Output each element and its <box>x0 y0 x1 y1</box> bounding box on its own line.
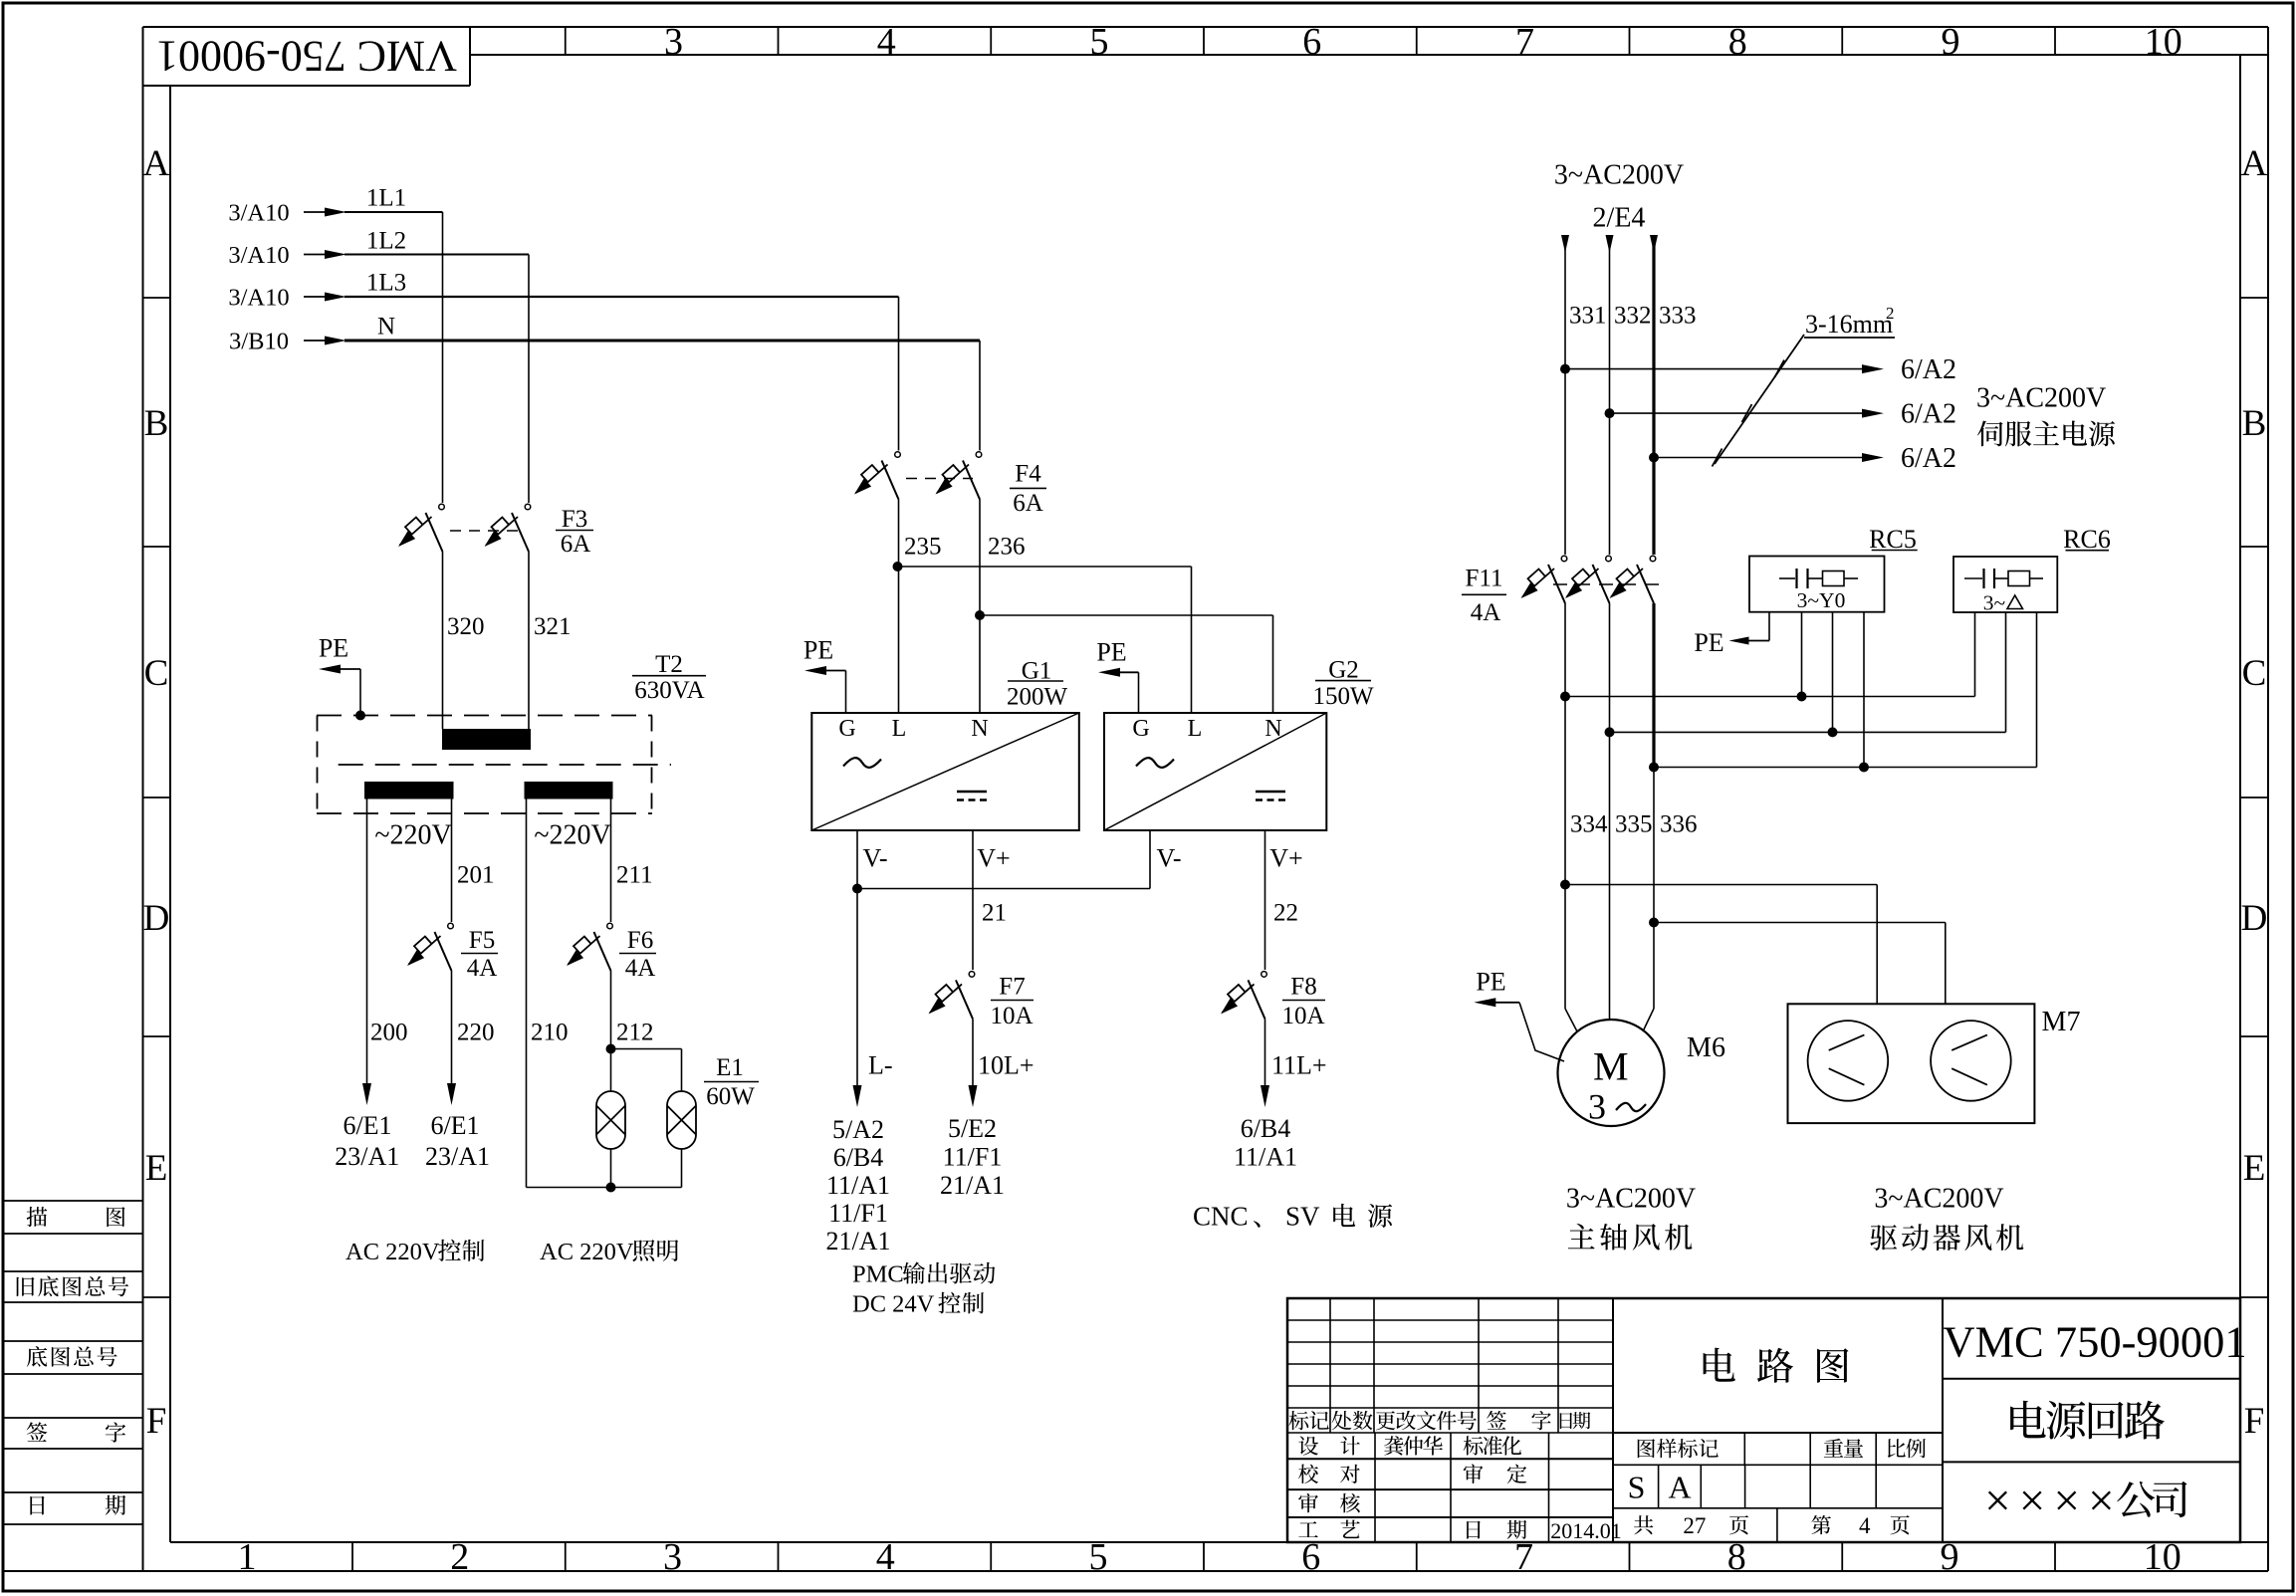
fan circle b <box>1931 1021 2011 1101</box>
svg-text:N: N <box>1264 716 1281 742</box>
svg-text:8: 8 <box>1728 21 1747 63</box>
G1 AC tilde <box>843 758 881 768</box>
svg-text:1L2: 1L2 <box>366 228 406 255</box>
svg-text:VMC 750-90001: VMC 750-90001 <box>156 32 457 81</box>
junction dot 331 tap <box>1560 364 1570 374</box>
wire 320 <box>442 552 444 729</box>
svg-text:630VA: 630VA <box>634 677 704 704</box>
bus row2 <box>1605 727 1615 737</box>
power supply G1 box <box>811 713 1079 830</box>
wire 211 <box>610 799 612 923</box>
F3 linkage dashed <box>450 530 522 532</box>
wire 10L+ <box>972 1019 974 1087</box>
junction dot 236 branch <box>975 610 985 620</box>
svg-text:1L1: 1L1 <box>366 185 406 212</box>
svg-text:3~AC200V: 3~AC200V <box>1554 160 1684 191</box>
svg-text:6A: 6A <box>1013 490 1043 517</box>
svg-text:11/F1: 11/F1 <box>943 1143 1003 1172</box>
svg-text:334: 334 <box>1570 811 1608 838</box>
cable symbol 3-16mm2 <box>1715 335 1804 464</box>
svg-text:N: N <box>377 314 395 341</box>
T2 secondary winding bar right <box>525 782 613 799</box>
svg-text:200W: 200W <box>1007 684 1068 711</box>
junction dot V- bus <box>852 884 862 894</box>
G1 V+ wire <box>972 830 974 970</box>
bus row4 to M7 <box>1560 880 1570 890</box>
svg-text:AC 220V: AC 220V <box>540 1239 634 1265</box>
svg-text:11/F1: 11/F1 <box>828 1199 888 1228</box>
svg-text:M7: M7 <box>2042 1007 2081 1037</box>
svg-text:M: M <box>1593 1043 1629 1088</box>
svg-text:N: N <box>971 716 988 742</box>
wires below F11 <box>1564 603 1566 1009</box>
svg-text:6/B4: 6/B4 <box>833 1143 884 1172</box>
G2 V- wire <box>1149 830 1151 889</box>
svg-text:DC 24V: DC 24V <box>852 1291 935 1318</box>
breaker F8 <box>1262 972 1267 978</box>
row 图样标记 重量 比例 <box>1743 1433 1745 1465</box>
svg-text:4: 4 <box>877 21 896 63</box>
svg-text:6/A2: 6/A2 <box>1901 354 1956 385</box>
svg-text:4A: 4A <box>625 955 656 982</box>
junction dot PE-screen <box>355 711 365 721</box>
revision table <box>1287 1319 1613 1321</box>
svg-text:E1: E1 <box>716 1054 744 1081</box>
svg-text:333: 333 <box>1659 303 1697 330</box>
suppressor RC6 box <box>1953 557 2057 612</box>
svg-text:11L+: 11L+ <box>1271 1051 1327 1080</box>
svg-text:T2: T2 <box>655 651 683 678</box>
svg-text:F7: F7 <box>999 974 1025 1001</box>
F4 linkage dashed <box>906 478 973 480</box>
svg-text:3: 3 <box>664 21 683 63</box>
label servo main power 伺服主电源 <box>1977 421 2003 447</box>
svg-text:5: 5 <box>1089 1536 1108 1578</box>
svg-text:336: 336 <box>1660 811 1698 838</box>
margin label 签字 <box>27 1422 48 1442</box>
revision header 标记 处数 更改文件号 签字 日期 <box>1288 1411 1308 1430</box>
breaker F4 pole 2 <box>976 452 982 458</box>
svg-text:V+: V+ <box>1269 844 1302 873</box>
svg-text:A: A <box>143 143 170 184</box>
svg-text:4: 4 <box>1859 1513 1871 1538</box>
subtitle 电源回路 <box>2010 1401 2046 1439</box>
svg-text:G: G <box>1132 716 1149 742</box>
svg-text:3/A10: 3/A10 <box>228 200 289 227</box>
title block <box>1287 1298 2240 1542</box>
svg-text:331: 331 <box>1569 303 1607 330</box>
right title VMC 750-90001 <box>1943 1378 2240 1380</box>
svg-text:220: 220 <box>457 1020 495 1046</box>
G2 AC tilde <box>1136 758 1174 768</box>
svg-text:235: 235 <box>904 534 942 561</box>
svg-text:10A: 10A <box>1281 1003 1324 1029</box>
svg-text:AC 220V: AC 220V <box>345 1239 440 1265</box>
row 校对 审定 <box>1298 1465 1318 1483</box>
svg-text:6A: 6A <box>561 531 591 558</box>
svg-text:1L3: 1L3 <box>366 270 406 297</box>
svg-text:SV: SV <box>1285 1202 1320 1232</box>
svg-text:21/A1: 21/A1 <box>940 1171 1005 1200</box>
bus row1 <box>1560 692 1570 702</box>
G1 DC symbol <box>957 791 987 794</box>
svg-text:1: 1 <box>238 1536 257 1578</box>
row 工艺 日期 2014.01 <box>1298 1521 1317 1537</box>
svg-text:A: A <box>2241 143 2268 184</box>
svg-text:4: 4 <box>876 1536 895 1578</box>
svg-text:~220V: ~220V <box>374 820 451 851</box>
svg-text:F11: F11 <box>1466 566 1503 592</box>
wire 321 <box>528 552 530 729</box>
svg-text:3/B10: 3/B10 <box>229 329 289 355</box>
breaker F6 <box>607 923 613 929</box>
breaker F3 pole 2 <box>525 504 531 510</box>
svg-text:V+: V+ <box>977 844 1010 873</box>
junction dot 332 tap <box>1605 408 1615 418</box>
breaker F11 three poles <box>1561 556 1567 562</box>
T2 secondary winding bar left <box>364 782 454 799</box>
margin label 日期 <box>30 1496 44 1515</box>
svg-text:F3: F3 <box>562 506 587 533</box>
svg-text:F: F <box>146 1401 167 1442</box>
suppressor RC5 box <box>1749 557 1885 612</box>
svg-text:RC5: RC5 <box>1869 525 1917 554</box>
svg-text:B: B <box>144 403 169 444</box>
svg-text:150W: 150W <box>1312 683 1374 710</box>
svg-text:3~AC200V: 3~AC200V <box>1976 383 2106 414</box>
title 电路图 <box>1704 1348 1735 1382</box>
margin label 旧底图总号 <box>17 1277 35 1296</box>
junction dot lamp bottom <box>606 1183 616 1193</box>
svg-text:23/A1: 23/A1 <box>425 1142 490 1171</box>
svg-text:~220V: ~220V <box>534 820 610 851</box>
svg-text:6/A2: 6/A2 <box>1901 399 1956 430</box>
wire 220 <box>451 971 453 1085</box>
svg-text:C: C <box>144 653 169 694</box>
margin label 底图总号 <box>27 1346 47 1367</box>
svg-text:L: L <box>1188 716 1203 742</box>
wire 11L+ <box>1264 1019 1266 1087</box>
wire 210 <box>526 799 528 1188</box>
svg-text:21/A1: 21/A1 <box>826 1227 891 1255</box>
lamp E1 a <box>596 1091 625 1149</box>
svg-text:2014.01: 2014.01 <box>1550 1518 1622 1543</box>
junction dot 235 branch <box>893 562 903 571</box>
svg-text:22: 22 <box>1273 900 1298 927</box>
RC5 pin dots <box>1797 692 1807 702</box>
svg-text:2: 2 <box>450 1536 469 1578</box>
svg-text:9: 9 <box>1942 21 1960 63</box>
margin label 描图 <box>27 1207 48 1227</box>
svg-text:23/A1: 23/A1 <box>335 1142 399 1171</box>
svg-text:4A: 4A <box>1471 599 1501 626</box>
svg-text:3~: 3~ <box>1983 590 2006 614</box>
svg-text:×: × <box>2053 1476 2080 1527</box>
svg-text:F5: F5 <box>469 927 495 954</box>
svg-text:11/A1: 11/A1 <box>826 1171 890 1200</box>
breaker F7 <box>969 972 975 978</box>
svg-text:3/A10: 3/A10 <box>228 242 289 269</box>
svg-text:332: 332 <box>1614 303 1652 330</box>
title box top-left (rotated) <box>156 32 457 81</box>
bus row5 to M7 <box>1649 918 1659 928</box>
svg-text:6/A2: 6/A2 <box>1901 443 1956 474</box>
svg-text:6/E1: 6/E1 <box>430 1111 479 1140</box>
breaker F3 pole 1 <box>439 504 445 510</box>
svg-text:5/A2: 5/A2 <box>832 1115 884 1144</box>
wire 212 <box>610 971 612 1091</box>
branch wire 235 to G2 L <box>898 566 1192 568</box>
svg-text:L: L <box>892 716 907 742</box>
svg-text:6/E1: 6/E1 <box>343 1111 391 1140</box>
bus row3 <box>1649 763 1659 773</box>
G2 V+ wire 22 <box>1264 830 1266 970</box>
fan circle a <box>1808 1021 1889 1101</box>
S A row <box>1658 1465 1660 1508</box>
column tick dividers bottom <box>351 1542 353 1571</box>
left margin boxes <box>3 1200 143 1202</box>
svg-text:×: × <box>2019 1476 2046 1527</box>
svg-text:10L+: 10L+ <box>978 1051 1034 1080</box>
svg-text:212: 212 <box>616 1020 654 1046</box>
svg-text:D: D <box>2241 898 2268 939</box>
svg-text:F: F <box>2244 1401 2265 1442</box>
lamp E1 b <box>667 1091 696 1149</box>
svg-text:6/B4: 6/B4 <box>1241 1114 1291 1143</box>
svg-text:F4: F4 <box>1015 461 1041 488</box>
branch wire 236 to G2 N <box>980 614 1273 616</box>
RC5 capacitor and resistor <box>1779 577 1795 579</box>
RC6 capacitor and resistor <box>1964 577 1982 579</box>
svg-text:4A: 4A <box>467 955 498 982</box>
svg-text:S: S <box>1628 1470 1646 1505</box>
branch 6/A2 row b <box>1610 412 1863 414</box>
svg-text:PMC: PMC <box>852 1261 904 1288</box>
svg-text:210: 210 <box>531 1020 569 1046</box>
G1 V- wire <box>856 830 858 1087</box>
svg-text:3/A10: 3/A10 <box>228 285 289 312</box>
svg-text:3: 3 <box>663 1536 682 1578</box>
column tick dividers top <box>565 27 567 55</box>
svg-text:×: × <box>1984 1476 2011 1527</box>
feeder wire 331 <box>1564 235 1566 555</box>
svg-text:PE: PE <box>1096 638 1126 667</box>
feeder wire 332 <box>1609 235 1611 555</box>
F11 linkage dashed <box>1553 583 1661 585</box>
svg-text:320: 320 <box>447 613 485 640</box>
svg-text:60W: 60W <box>706 1083 755 1110</box>
svg-text:V-: V- <box>862 844 887 873</box>
svg-text:F8: F8 <box>1290 974 1316 1001</box>
wire 201 <box>451 799 453 923</box>
RC5 pin wires <box>1768 612 1770 641</box>
branch 6/A2 row c <box>1654 457 1862 459</box>
svg-text:PE: PE <box>319 634 348 663</box>
breaker F5 <box>448 923 454 929</box>
breaker F4 pole 1 <box>895 452 901 458</box>
svg-text:×: × <box>2088 1476 2115 1527</box>
svg-text:VMC 750-90001: VMC 750-90001 <box>1943 1316 2246 1366</box>
svg-text:PE: PE <box>1694 628 1723 657</box>
svg-text:A: A <box>1668 1470 1691 1505</box>
row tick dividers left and right <box>143 297 171 299</box>
svg-text:F6: F6 <box>627 927 653 954</box>
junction dot lamp branch <box>606 1044 616 1054</box>
G2 DC symbol <box>1256 791 1285 794</box>
svg-text:V-: V- <box>1156 844 1181 873</box>
svg-text:321: 321 <box>534 613 572 640</box>
svg-text:2/E4: 2/E4 <box>1593 203 1646 234</box>
svg-text:5/E2: 5/E2 <box>948 1114 997 1143</box>
pages row 共27页 第4页 <box>1776 1508 1778 1542</box>
svg-text:7: 7 <box>1515 21 1534 63</box>
row 设计 龚仲华 标准化 <box>1298 1436 1318 1455</box>
svg-text:C: C <box>2242 653 2267 694</box>
branch wire to lamp 2 <box>611 1048 682 1050</box>
row 审核 <box>1298 1493 1318 1513</box>
svg-text:L-: L- <box>868 1051 893 1080</box>
svg-text:B: B <box>2242 403 2267 444</box>
power supply G2 box <box>1104 713 1326 830</box>
svg-text:PE: PE <box>1476 968 1505 997</box>
svg-text:G2: G2 <box>1328 657 1359 684</box>
wire 235 <box>898 500 900 714</box>
svg-text:11/A1: 11/A1 <box>1234 1143 1297 1172</box>
svg-text:3~Y0: 3~Y0 <box>1797 588 1846 612</box>
transformer T2 screen dashed box <box>317 715 652 717</box>
svg-text:27: 27 <box>1683 1513 1706 1538</box>
fan box M7 <box>1788 1004 2035 1123</box>
svg-text:10: 10 <box>2145 21 2182 63</box>
svg-text:236: 236 <box>988 534 1026 561</box>
svg-text:2: 2 <box>1886 304 1895 323</box>
V- bus to G2 <box>857 888 1150 890</box>
junction dot 333 tap <box>1649 453 1659 463</box>
svg-text:G: G <box>838 716 855 742</box>
wire 200 <box>366 799 368 1086</box>
wire 236 <box>979 500 981 714</box>
svg-text:3~AC200V: 3~AC200V <box>1874 1183 2003 1214</box>
svg-text:335: 335 <box>1615 811 1653 838</box>
svg-text:PE: PE <box>804 636 833 665</box>
svg-text:21: 21 <box>982 900 1007 927</box>
svg-text:10A: 10A <box>990 1003 1033 1029</box>
lamp bottom wires <box>610 1149 612 1188</box>
svg-text:201: 201 <box>457 862 495 889</box>
svg-text:E: E <box>145 1148 168 1189</box>
motor M6 <box>1558 1020 1665 1126</box>
svg-text:D: D <box>143 898 170 939</box>
svg-text:211: 211 <box>616 862 653 889</box>
svg-text:3~AC200V: 3~AC200V <box>1566 1183 1696 1214</box>
branch 6/A2 row a <box>1565 368 1862 370</box>
svg-text:5: 5 <box>1090 21 1109 63</box>
svg-text:6: 6 <box>1302 21 1321 63</box>
svg-text:200: 200 <box>370 1020 408 1046</box>
svg-text:M6: M6 <box>1687 1032 1725 1063</box>
T2 primary winding bar <box>442 729 531 750</box>
svg-text:RC6: RC6 <box>2063 525 2111 554</box>
svg-text:E: E <box>2243 1148 2266 1189</box>
svg-text:3-16mm: 3-16mm <box>1805 310 1893 339</box>
svg-text:3: 3 <box>1588 1086 1606 1126</box>
svg-text:CNC: CNC <box>1193 1202 1249 1232</box>
feeder wire 333 thick <box>1652 235 1655 555</box>
